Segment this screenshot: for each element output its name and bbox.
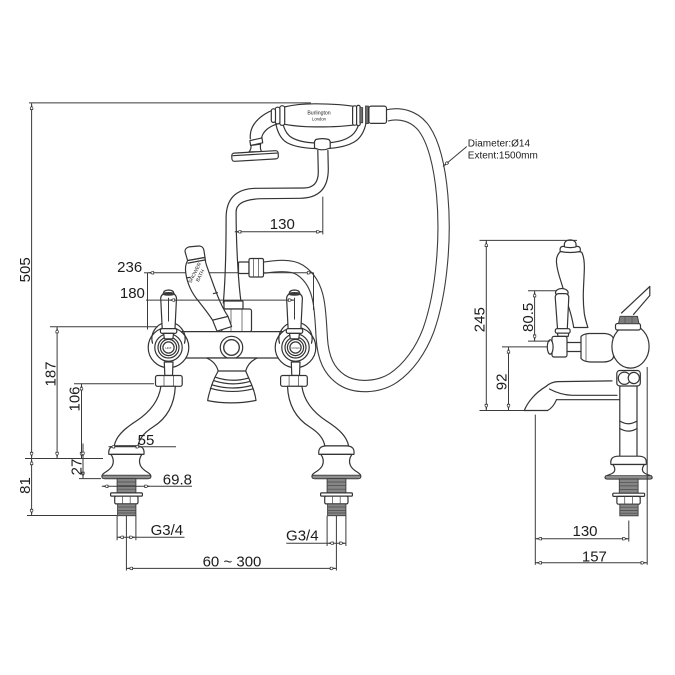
dim 157 [535,367,647,566]
right base [312,446,361,516]
dim 236 [117,259,313,330]
dim 81 [17,459,117,516]
svg-text:London: London [312,117,327,122]
center diverter seat rings [220,336,242,358]
svg-text:60 ~ 300: 60 ~ 300 [203,553,262,570]
svg-text:55: 55 [138,432,155,449]
right hex nut [281,376,308,387]
dim 505 [17,103,311,459]
svg-text:81: 81 [17,477,34,494]
dim G3/4 left [117,516,184,541]
elbow hex [249,259,264,278]
right valve rings [279,322,312,361]
dim 187 [42,327,158,459]
left neck under valve [164,362,173,376]
swan neck pipe [223,151,328,304]
dim 27 [68,444,101,479]
svg-text:180: 180 [120,285,145,302]
diverter bonnet hex [222,309,252,332]
svg-text:69.8: 69.8 [163,471,192,488]
side base [605,456,652,516]
side main body [612,325,649,368]
svg-text:187: 187 [42,361,59,386]
dim 92 [494,347,547,411]
dim 80.5 [520,291,557,341]
left base [102,446,151,516]
side valve boss [581,334,614,363]
dim 245 [472,240,578,410]
dim G3/4 right [286,516,346,546]
right neck under valve [291,362,300,376]
svg-text:157: 157 [582,549,607,566]
side riser pipe [620,386,637,456]
side diverter vase lever [556,240,587,328]
side bonnet collar [616,324,641,331]
svg-text:G3/4: G3/4 [286,528,319,545]
left hex nut [156,376,183,387]
dim 180 [120,285,295,322]
leader Diameter/Extent [443,139,538,167]
cradle mount block [315,139,331,150]
right valve boss [275,327,316,368]
hose connector block [369,106,387,123]
diverter lever [185,246,232,331]
svg-text:245: 245 [472,307,489,332]
dim 55 [109,432,177,449]
svg-text:HOT: HOT [165,346,172,350]
svg-text:130: 130 [270,216,295,233]
left lever [160,290,176,339]
left valve rings [152,322,185,361]
svg-text:92: 92 [494,374,511,391]
dim 60 ~ 300 [126,516,336,571]
svg-text:106: 106 [67,386,84,411]
dim 130 top [235,197,323,235]
svg-text:505: 505 [17,257,34,282]
svg-text:236: 236 [117,259,142,276]
shower head collar [250,138,263,146]
diverter bonnet collar [224,301,243,309]
dim 69.8 [102,471,192,488]
svg-text:Extent:1500mm: Extent:1500mm [468,150,538,161]
deck extension line [25,458,103,460]
shower head plate [232,151,279,162]
elbow collar [239,262,250,274]
handle rings left [271,106,284,126]
hose break symbol [622,287,650,315]
dim 106 [67,384,154,459]
svg-text:G3/4: G3/4 [151,522,184,539]
svg-text:27: 27 [68,459,85,476]
left valve boss [148,327,189,368]
svg-text:Diameter:Ø14: Diameter:Ø14 [468,139,531,150]
hose coupling dark bands [360,106,369,124]
left leg [114,386,175,446]
right leg [288,386,349,446]
shower head arm [250,108,282,142]
hose from handset to elbow [264,114,444,386]
handset barrel [283,104,357,127]
side front lever [547,289,581,358]
shower head neck [249,144,262,152]
body bar [169,332,296,358]
svg-text:COLD: COLD [291,346,300,350]
svg-text:130: 130 [572,523,597,540]
right lever [286,290,302,339]
handle rings right [353,105,361,125]
cradle U [275,114,368,149]
dim 130 right [535,415,629,542]
spout [207,358,258,403]
side hose outlet hex [619,316,640,323]
side lower hex with circles [617,371,641,387]
side spout [524,381,619,411]
svg-text:80.5: 80.5 [520,303,537,332]
